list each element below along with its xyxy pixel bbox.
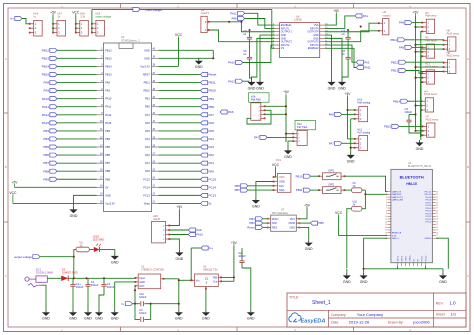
svg-text:PA12: PA12 [42, 113, 49, 117]
wire +5V to H5 pin2 [416, 51, 423, 53]
ground at C1 [69, 310, 77, 321]
wire U10 to ground [347, 209, 352, 268]
svg-text:PIO-9: PIO-9 [426, 197, 432, 199]
junction [85, 277, 87, 279]
svg-text:16: 16 [385, 232, 387, 234]
svg-text:PB6: PB6 [43, 153, 49, 157]
svg-text:22: 22 [436, 221, 438, 223]
power flag +5V at U7 [304, 203, 311, 208]
svg-text:PB3: PB3 [105, 129, 110, 133]
svg-text:SCK: SCK [272, 222, 277, 225]
svg-text:OUT: OUT [139, 285, 145, 288]
ground at H21 [252, 198, 260, 209]
wire to U1 pin 14 [57, 154, 97, 156]
net flag PA9 [44, 89, 57, 93]
ground U4 right A [327, 80, 335, 91]
wire PA8 [412, 22, 422, 24]
wire +5V to H8 pin2 [416, 66, 444, 68]
junction [134, 289, 136, 291]
junction [414, 44, 416, 46]
net flag PA4 [201, 137, 215, 141]
svg-text:A: A [5, 57, 7, 61]
svg-text:PB10: PB10 [143, 89, 150, 93]
wire U1 pin 32 [159, 114, 201, 116]
svg-text:Sheet:: Sheet: [436, 313, 446, 317]
svg-text:1K: 1K [79, 244, 82, 247]
EasyEDA logo [289, 313, 325, 324]
wire +5V center rail [285, 95, 287, 142]
connector H8 Pb12 servo [443, 52, 460, 74]
svg-text:24: 24 [436, 216, 438, 218]
net flag PB10 [201, 89, 217, 93]
svg-text:joco2006: joco2006 [412, 319, 430, 324]
wire U1 pin 36 [159, 82, 201, 84]
connector H13 Pb13 servo [421, 63, 438, 85]
svg-text:GND-1: GND-1 [392, 238, 400, 240]
wire to U1 pin 15 [57, 162, 97, 164]
svg-text:GND: GND [175, 317, 183, 321]
svg-text:+5V: +5V [283, 90, 290, 94]
junction [73, 277, 75, 279]
wire PB11 [405, 39, 444, 42]
junction [73, 256, 75, 258]
net flag PA3 b [356, 60, 370, 64]
wire H1 to OUTPUT2 [209, 30, 274, 42]
svg-text:15: 15 [385, 230, 387, 232]
svg-text:In+: In+ [10, 17, 14, 21]
svg-text:5V: 5V [105, 185, 108, 189]
net flag PA9 usb [188, 228, 202, 232]
ground center [284, 148, 292, 159]
wire PA6 to H10 [342, 113, 355, 115]
connector H12 Pa7 P&A [292, 120, 315, 145]
net flag PA8 servo b [399, 45, 412, 49]
svg-text:TAB: TAB [212, 276, 217, 279]
net flag PB10 dip [296, 174, 311, 178]
connector H16 In: [29, 13, 42, 37]
svg-text:+5V: +5V [413, 10, 420, 14]
wire H10/H11 pin3 to ground [351, 119, 355, 153]
wire to U1 pin 7 [57, 98, 97, 100]
svg-text:Pb12 servo: Pb12 servo [447, 55, 460, 58]
junction [414, 77, 416, 79]
wire to U1 pin 16 [57, 170, 97, 172]
svg-text:31: 31 [436, 197, 438, 199]
net flag PB3 [43, 129, 57, 133]
svg-text:GND: GND [202, 317, 210, 321]
junction [285, 133, 287, 135]
svg-text:TITLE:: TITLE: [289, 295, 299, 299]
wire C8 to ground [342, 66, 348, 80]
svg-text:Pa7 P&A: Pa7 P&A [297, 126, 307, 129]
svg-text:input voltage: input voltage [146, 8, 163, 12]
svg-text:Pa8 servo: Pa8 servo [425, 15, 437, 18]
net flag PB3 spi [249, 221, 262, 225]
wire PA1 to INPUT4 [325, 16, 355, 29]
svg-text:100uF: 100uF [405, 110, 413, 114]
svg-text:LED SMD: LED SMD [93, 239, 104, 242]
net flag PA15 [42, 121, 57, 125]
ground servo rail [415, 137, 423, 151]
svg-text:PB1: PB1 [209, 97, 215, 101]
svg-text:11: 11 [385, 219, 387, 221]
svg-text:27: 27 [436, 208, 438, 210]
capacitor C6 [243, 46, 252, 66]
wire H4 pin3 to ground rail [420, 110, 423, 137]
wire PA8 b [412, 46, 422, 48]
svg-text:PA4: PA4 [145, 137, 150, 141]
svg-text:26: 26 [436, 210, 438, 212]
ic U2 L7808CV_C347290 [135, 264, 165, 288]
svg-text:motor2: motor2 [383, 13, 392, 17]
wire U1 pin 33 [159, 106, 201, 108]
svg-text:PB4: PB4 [43, 137, 49, 141]
junction [178, 303, 180, 305]
svg-text:PA6: PA6 [228, 110, 234, 114]
wire to ENABLE2 [325, 48, 357, 67]
wire U1 pin 25 [159, 170, 201, 172]
svg-text:PC13: PC13 [143, 193, 150, 197]
power flag +5V at U4 [333, 9, 340, 14]
wire PB13 [406, 71, 422, 74]
power flag VCC at H18 [72, 10, 80, 15]
svg-text:PB12: PB12 [105, 48, 112, 52]
svg-text:PIO-5: PIO-5 [426, 208, 432, 210]
svg-text:PB3: PB3 [43, 129, 49, 133]
wire SCL [248, 185, 274, 187]
capacitor C8 [342, 46, 351, 66]
capacitor C1 100uF [70, 278, 83, 310]
svg-text:GND: GND [416, 147, 424, 151]
svg-text:Reset: Reset [209, 73, 217, 77]
svg-text:Pb11 servo: Pb11 servo [447, 32, 460, 35]
svg-text:GND: GND [144, 56, 150, 60]
connector H3 Pa8 servo [421, 12, 437, 34]
svg-text:Input: Input [139, 277, 145, 280]
svg-text:Pa6 P&A: Pa6 P&A [251, 99, 261, 102]
net flag PB8 [43, 169, 57, 173]
svg-text:100uF: 100uF [91, 283, 99, 287]
svg-text:PA7: PA7 [254, 136, 260, 140]
net flag PA7 [201, 113, 215, 117]
ground at C2 [95, 310, 103, 321]
svg-text:PA15: PA15 [105, 121, 112, 125]
svg-text:BLUETOOTH_HM-10: BLUETOOTH_HM-10 [408, 165, 432, 168]
net flag PA8 motor [232, 17, 245, 21]
junction [240, 21, 242, 23]
wire PB10 to DIP1 [311, 175, 320, 177]
net flag PB0 [201, 105, 215, 109]
ground U6 right [439, 269, 447, 284]
net flag PB11 dip [296, 188, 311, 192]
svg-text:usb-B: usb-B [153, 217, 160, 221]
capacitor C2 100nF [99, 278, 115, 310]
connector H21 I2C [273, 159, 291, 192]
ground at H20 [175, 250, 183, 261]
svg-text:PB13: PB13 [391, 69, 398, 73]
svg-text:PC14: PC14 [143, 185, 150, 189]
net flag PA6 analog [329, 112, 342, 116]
svg-text:PA4: PA4 [209, 137, 215, 141]
wire PA7 to H12 [267, 136, 293, 138]
resistor U9 1K [352, 182, 362, 193]
wire U6 GND-1 to ground rail [364, 238, 443, 269]
wire input voltage to U4 VS [272, 9, 275, 48]
net flag PA12 [42, 113, 57, 117]
wire U8 to LED1 [89, 249, 94, 251]
wire to U1 pin 6 [57, 90, 97, 92]
net flag PB13 [42, 56, 57, 60]
svg-text:GND: GND [111, 260, 119, 264]
power flag +5V servo rail [413, 10, 420, 15]
power flag +5V to U1 pin 18 [12, 181, 19, 188]
wire H19 to input voltage rail [92, 9, 272, 32]
svg-text:RESET-B: RESET-B [392, 233, 402, 235]
ground at C4 [84, 310, 92, 321]
svg-text:PA6: PA6 [145, 121, 150, 125]
svg-text:DIP2: DIP2 [329, 183, 335, 186]
svg-text:SPI (Standard): SPI (Standard) [272, 212, 288, 215]
ic U3 AMS1117-5v [191, 264, 222, 289]
svg-text:PB15: PB15 [42, 73, 50, 77]
net flag PB12 [42, 48, 57, 52]
svg-text:PA3: PA3 [209, 145, 215, 149]
net flag PA12 gnd row [228, 79, 243, 83]
svg-text:Vin: Vin [196, 279, 200, 282]
junction [347, 29, 349, 31]
connector H7 Pb15 servo [422, 116, 439, 138]
svg-text:Pa6 analog: Pa6 analog [358, 101, 371, 104]
led LED1 LED SMD [93, 236, 104, 253]
svg-text:19: 19 [436, 230, 438, 232]
capacitor C7 [342, 29, 351, 46]
wire +5V to H6 pin2 [416, 44, 444, 46]
wire U1 pin38 VCC [159, 38, 179, 66]
svg-text:VCC: VCC [279, 175, 285, 179]
net flag Reset [201, 72, 217, 76]
svg-text:BLUETOOTH: BLUETOOTH [400, 175, 424, 180]
net flag PB1 [201, 97, 215, 101]
junction [414, 51, 416, 53]
capacitor C5 [243, 29, 252, 46]
svg-text:NRST: NRST [143, 72, 150, 76]
wire H20 pin2 [169, 234, 188, 236]
junction [190, 279, 192, 281]
wire H3 pin3 to ground rail [421, 31, 423, 137]
svg-text:PB11: PB11 [296, 188, 303, 192]
ground U10 rail [343, 269, 351, 284]
wire U1 pin 28 [159, 146, 201, 148]
svg-text:2019-12-26: 2019-12-26 [349, 319, 370, 324]
svg-text:A: A [467, 57, 469, 61]
net flag PC13 [201, 193, 217, 197]
svg-text:UART-RX: UART-RX [392, 193, 402, 196]
svg-text:PB10: PB10 [209, 89, 217, 93]
svg-text:3.3V: 3.3V [392, 235, 397, 237]
svg-text:PC13: PC13 [209, 193, 217, 197]
svg-text:GND-4: GND-4 [425, 238, 433, 240]
svg-text:PB9: PB9 [105, 177, 110, 181]
svg-text:UART-CRX: UART-CRX [392, 199, 404, 202]
svg-text:PA11: PA11 [364, 66, 371, 70]
wire U2 OUT down [134, 286, 136, 304]
net flag output voltage [14, 255, 40, 259]
wire H12 pin1 to +5V [286, 134, 293, 142]
net flag PB14 [42, 64, 57, 68]
svg-text:GND: GND [439, 280, 447, 284]
ic U4 L293D [273, 15, 329, 58]
capacitor C10 100uF [139, 292, 147, 306]
junction [346, 109, 348, 111]
svg-text:PB11: PB11 [390, 38, 397, 42]
svg-text:PB9: PB9 [43, 177, 49, 181]
svg-text:PB11: PB11 [144, 81, 151, 85]
net flag PA10 lower-left [228, 61, 243, 65]
svg-text:u1: u1 [243, 32, 246, 36]
svg-text:20: 20 [436, 227, 438, 229]
wire DC1 to D2 [47, 277, 61, 279]
wire U1 pin 30 [159, 130, 201, 132]
svg-text:1/1: 1/1 [451, 312, 457, 317]
net flag PA5 [201, 129, 215, 133]
junction [364, 193, 366, 195]
wire H1 to OUTPUT1 [209, 22, 274, 32]
svg-text:PA3: PA3 [364, 60, 370, 64]
svg-text:PA1: PA1 [363, 14, 369, 18]
svg-text:1.0: 1.0 [450, 301, 457, 306]
wire H20 pin1 to ground [169, 239, 179, 250]
wire junction to U10 [362, 194, 366, 208]
svg-text:PIO-13: PIO-13 [425, 256, 427, 262]
junction [248, 29, 250, 31]
wire +5V to H20 pin4 [169, 210, 179, 226]
wire to U1 pin 17 [57, 178, 97, 180]
ground at C10 rail [175, 310, 183, 321]
wire to In+ flag [191, 248, 201, 280]
wire H6 pin3 to ground rail [421, 49, 444, 137]
connector H10 Pa6 analog [354, 99, 371, 122]
svg-text:GND: GND [305, 247, 313, 251]
net flag PB7 i2c [235, 188, 248, 192]
net flag PA6 (floating) [220, 110, 234, 114]
ground U4 left A [247, 80, 255, 91]
svg-text:PB14: PB14 [105, 64, 112, 68]
svg-text:RES: RES [272, 226, 277, 229]
net flag PA2 [201, 153, 215, 157]
svg-text:PIO-7: PIO-7 [426, 202, 432, 204]
svg-text:14: 14 [385, 227, 387, 229]
net flag PA7 center [254, 135, 267, 139]
svg-text:SCL: SCL [279, 184, 285, 188]
ground at U3 [202, 310, 210, 321]
wire rail to ground and 8V [151, 280, 179, 310]
svg-text:1: 1 [386, 191, 387, 193]
svg-text:7: 7 [386, 208, 387, 210]
svg-text:+5V: +5V [345, 92, 352, 96]
svg-text:PA8: PA8 [44, 81, 50, 85]
junction [360, 26, 362, 28]
svg-text:C: C [467, 274, 469, 278]
wire to U1 pin 4 [57, 73, 97, 75]
net flag PB11 [201, 81, 216, 85]
svg-text:17: 17 [436, 235, 438, 237]
connector H5 Pa8 servo [421, 37, 437, 59]
wire GND pin19 [74, 195, 97, 207]
net flag PA10 [42, 97, 57, 101]
wire to INPUT3 [325, 45, 357, 62]
net flag PB15 [42, 72, 57, 76]
ic U1 STM32duino_2 [97, 35, 159, 212]
net flag PB12 servo [391, 60, 406, 64]
svg-text:PA1: PA1 [209, 161, 215, 165]
net flag PA1 [201, 161, 215, 165]
svg-text:GND: GND [139, 281, 145, 284]
svg-text:In:: In: [34, 15, 37, 18]
svg-text:PA10: PA10 [42, 97, 49, 101]
svg-text:18: 18 [436, 232, 438, 234]
svg-text:PB15: PB15 [105, 72, 112, 76]
svg-text:+5V: +5V [231, 241, 238, 245]
svg-text:2: 2 [386, 194, 387, 196]
junction [150, 303, 152, 305]
power flag +5V analog [345, 92, 352, 97]
svg-text:PA1: PA1 [145, 161, 150, 165]
svg-text:+5V: +5V [333, 9, 340, 13]
net flag PB5 spi [310, 221, 324, 225]
junction [350, 147, 352, 149]
svg-text:PIO-2: PIO-2 [426, 216, 432, 218]
wire U1 pin 26 [159, 162, 201, 164]
svg-text:GND: GND [343, 280, 351, 284]
svg-text:Reset: Reset [247, 226, 255, 230]
svg-text:ENABLE2: ENABLE2 [308, 47, 319, 50]
capacitor C11 100nF [238, 248, 251, 310]
svg-text:GND: GND [95, 317, 103, 321]
svg-text:23: 23 [436, 219, 438, 221]
svg-text:MISO: MISO [272, 218, 278, 221]
wire C3 loop [135, 304, 151, 320]
ground at DC1 [42, 310, 50, 321]
wire +5V to H13 pin2 [416, 77, 423, 79]
net flag PB14 servo [393, 99, 408, 103]
svg-text:GND: GND [289, 226, 295, 229]
svg-text:Company:: Company: [331, 313, 347, 317]
wire PB15 [399, 125, 423, 127]
diode D2 1N4007 SMD [61, 267, 77, 281]
svg-text:In+: In+ [209, 246, 213, 250]
power flag +5V at H17 [50, 10, 57, 15]
wire to U1 pin 3 [57, 65, 97, 67]
svg-text:PB1: PB1 [145, 97, 150, 101]
svg-text:PB14: PB14 [42, 65, 50, 69]
svg-text:PA0: PA0 [145, 169, 150, 173]
svg-text:Vcc3.3V: Vcc3.3V [105, 201, 115, 205]
svg-text:VS: VS [281, 47, 285, 50]
wire In+ to H16 [22, 19, 30, 24]
svg-text:8: 8 [386, 210, 387, 212]
module U6 BLUETOOTH HM-10 [385, 162, 438, 266]
wire +5V to H7 pin2 [416, 130, 423, 132]
net flag PB15 servo [384, 124, 399, 128]
wire output voltage to node [40, 257, 74, 279]
svg-text:GND: GND [256, 86, 264, 90]
svg-text:PA0: PA0 [209, 169, 215, 173]
wire PB12 [406, 61, 444, 64]
resistor U10 2k [352, 201, 362, 211]
svg-text:PB4: PB4 [105, 137, 110, 141]
ground at LED1 [111, 254, 119, 265]
svg-text:PA11: PA11 [230, 11, 237, 15]
